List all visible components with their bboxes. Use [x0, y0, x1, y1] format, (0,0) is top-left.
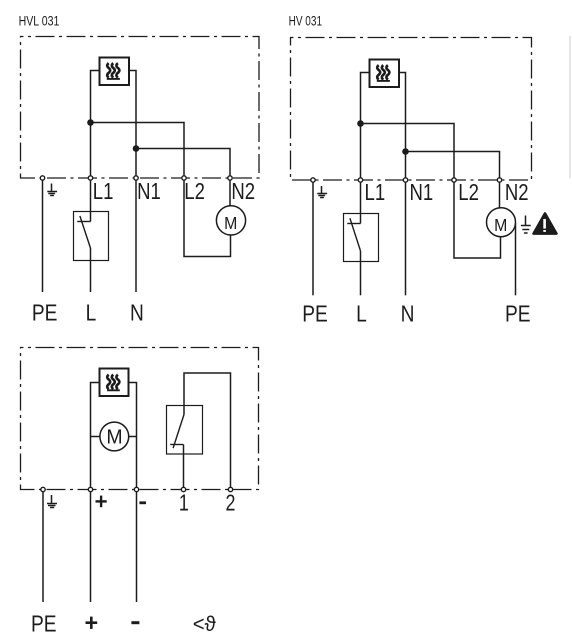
motor M1 (d3) — [100, 422, 129, 451]
terminal + (d3) — [88, 487, 92, 491]
svg-text:HV 031: HV 031 — [289, 13, 323, 29]
junction node on L1 wire (d2) — [357, 120, 364, 127]
terminal N1 (d2) — [403, 178, 407, 182]
label - (bottom of d3) — [131, 621, 139, 624]
label + (bottom of d3) — [86, 617, 98, 629]
wire motor bottom loop to terminal L2 (d2) — [454, 180, 501, 258]
wire branch L1 node to terminal L2 (d2) — [361, 124, 455, 181]
thermal switch S1 — [74, 212, 109, 293]
terminal L1 (d2) — [358, 178, 362, 182]
terminal N1 — [134, 176, 138, 180]
heater E1 (d2) — [370, 60, 400, 88]
ground symbol at PE terminal (d3) — [47, 495, 57, 508]
enclosure border diagram3 (dash-dot) — [21, 348, 259, 490]
svg-text:L1: L1 — [93, 179, 114, 205]
terminal PE (d2) — [311, 178, 315, 182]
heater E1 — [100, 58, 130, 86]
svg-text:N1: N1 — [410, 180, 434, 206]
wire heater right lead to terminal N1 (d2) — [399, 73, 406, 181]
enclosure border HV031 (dash-dot) — [291, 38, 532, 181]
wire branch N1 node to terminal N2 — [136, 149, 230, 178]
wire heater left lead to terminal L1 (d2) — [361, 73, 370, 181]
warning triangle — [534, 213, 557, 233]
thermostat switch (d3) — [167, 406, 203, 490]
terminal N2 — [228, 176, 232, 180]
terminal N2 (d2) — [497, 178, 501, 182]
wire + down (d3) — [90, 490, 92, 603]
wire motor bottom loop to terminal L2 — [184, 178, 231, 257]
svg-text:N: N — [401, 300, 415, 326]
wire heater right lead to terminal N1 — [129, 71, 137, 178]
wire L1 terminal into switch (d2) — [360, 180, 362, 224]
svg-text:1: 1 — [179, 490, 189, 516]
wire N2 terminal to motor top — [229, 178, 231, 207]
wire PE down (d2) — [312, 180, 314, 295]
svg-text:M: M — [224, 213, 237, 233]
svg-text:HVL 031: HVL 031 — [19, 13, 60, 29]
svg-text:PE: PE — [505, 300, 531, 326]
motor M1 — [216, 206, 245, 235]
svg-text:M: M — [106, 426, 122, 449]
svg-text:L1: L1 — [365, 180, 386, 206]
svg-text:<ϑ: <ϑ — [193, 612, 217, 636]
wire motor left stub (d3) — [91, 436, 101, 438]
svg-text:N: N — [130, 300, 144, 326]
wire thermostat loop to terminal 2 (d3) — [184, 373, 231, 490]
terminal L2 (d2) — [452, 178, 456, 182]
svg-text:L: L — [356, 300, 367, 326]
thermal switch S1 (d2) — [344, 214, 379, 296]
junction node on L1 wire — [87, 119, 94, 126]
ground symbol at motor (d2) — [521, 216, 531, 234]
wire PE down from terminal — [42, 178, 44, 293]
wire N1 terminal down to N — [135, 178, 137, 293]
wire heater left lead to terminal L1 — [91, 71, 100, 178]
wire L1 terminal into switch — [90, 178, 92, 222]
svg-text:PE: PE — [302, 300, 328, 326]
terminal L2 — [182, 176, 186, 180]
svg-text:L2: L2 — [184, 179, 205, 205]
terminal L1 — [88, 176, 92, 180]
svg-text:N1: N1 — [137, 179, 161, 205]
wire motor right stub (d3) — [128, 436, 136, 438]
svg-text:L2: L2 — [458, 180, 479, 206]
svg-text:2: 2 — [225, 490, 235, 516]
wire heater left lead down to terminal + — [91, 383, 100, 490]
terminal 1 (d3) — [181, 487, 185, 491]
wire branch N1 node to terminal N2 (d2) — [406, 152, 500, 181]
wire PE down (d3) — [42, 490, 44, 603]
svg-text:M: M — [494, 215, 507, 235]
junction node on N1 wire — [133, 145, 140, 152]
svg-text:PE: PE — [31, 611, 57, 637]
svg-text:N2: N2 — [505, 180, 529, 206]
svg-text:N2: N2 — [231, 179, 255, 205]
terminal PE (diagram 1) — [40, 176, 44, 180]
heater E1 (d3) — [100, 369, 129, 397]
wire branch L1 node to terminal L2 — [91, 123, 185, 178]
svg-text:PE: PE — [32, 300, 58, 326]
wire heater right lead down to terminal - — [129, 383, 137, 490]
terminal 2 (d3) — [228, 487, 232, 491]
ground symbol at PE terminal (d2) — [317, 186, 327, 198]
junction node on N1 wire (d2) — [402, 148, 409, 155]
enclosure border HVL031 (dash-dot) — [21, 37, 260, 179]
svg-text:L: L — [86, 300, 97, 326]
ground symbol at PE terminal — [47, 184, 57, 196]
label + (terminal row d3) — [96, 496, 107, 508]
label - (terminal row d3) — [139, 501, 146, 504]
faint page-edge artifact — [569, 36, 571, 178]
terminal - (d3) — [134, 487, 138, 491]
wire - down (d3) — [136, 490, 138, 603]
motor M1 (d2) — [487, 208, 516, 237]
wire N1 terminal down to N (d2) — [405, 180, 407, 295]
terminal PE (d3) — [41, 487, 45, 491]
wire N2 terminal to motor top (d2) — [499, 180, 501, 208]
wire motor PE lead down (d2) — [515, 224, 517, 296]
